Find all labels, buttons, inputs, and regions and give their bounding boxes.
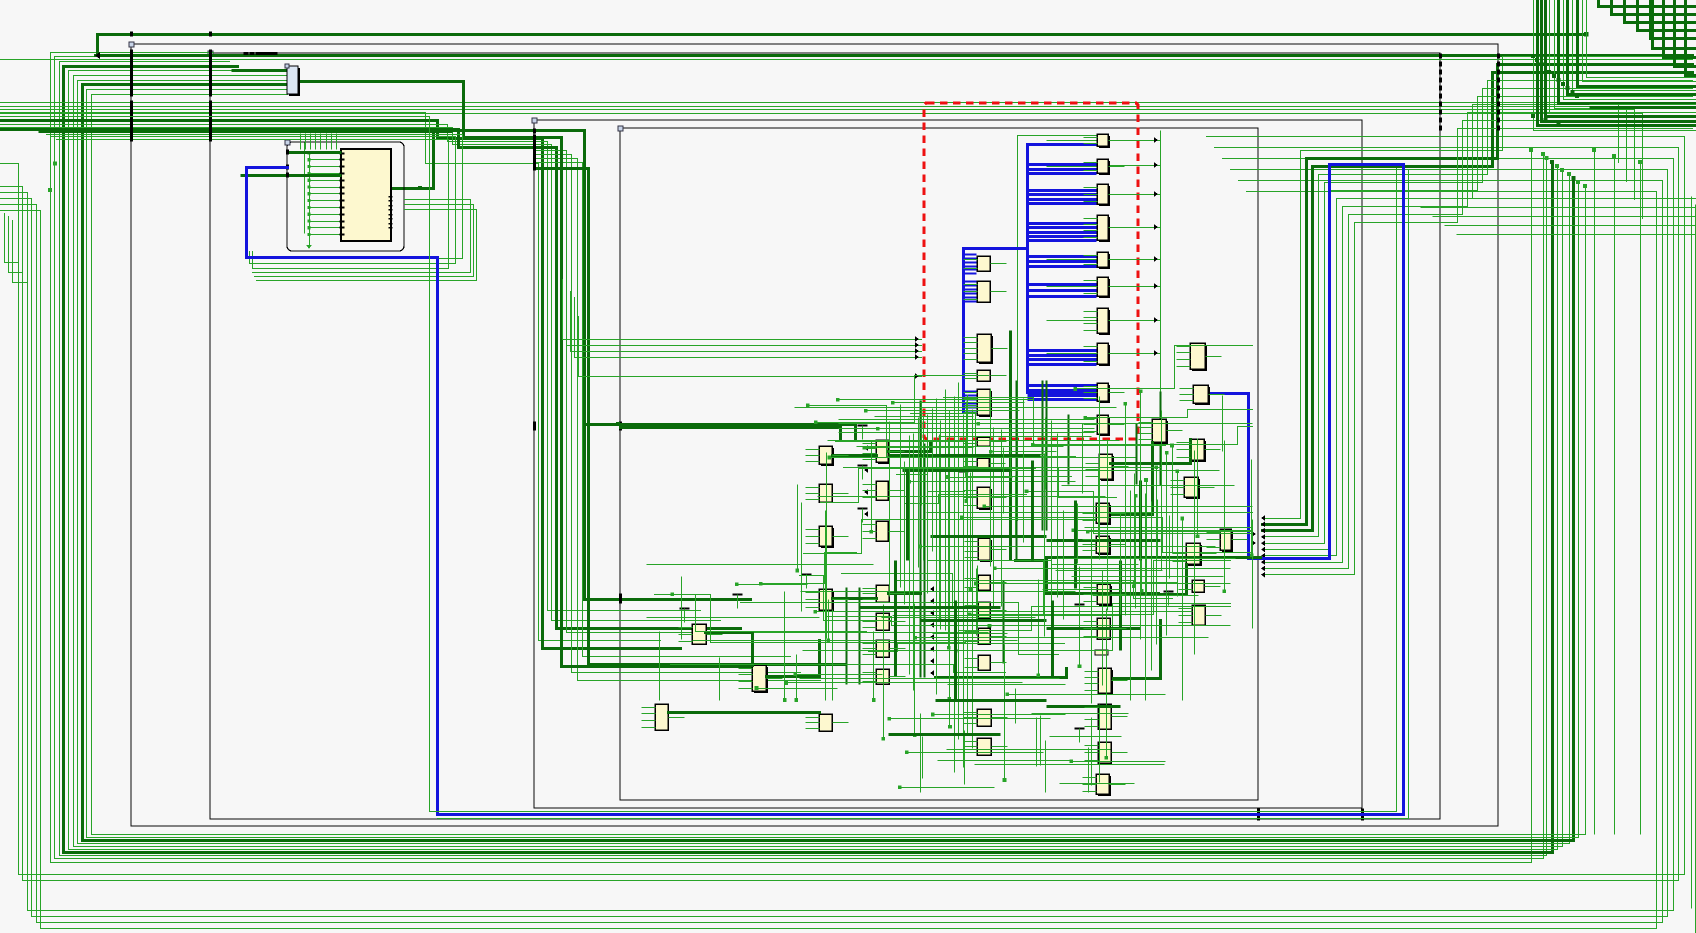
block U42: [1098, 505, 1111, 525]
block U51: [1192, 345, 1207, 371]
block U48: [1098, 742, 1111, 763]
block U56: [1192, 580, 1204, 592]
block U10: [1099, 417, 1110, 436]
block U16: [977, 437, 990, 446]
block U32: [821, 591, 834, 612]
block U18: [979, 489, 992, 510]
arrowheads on rails: [930, 586, 934, 592]
wire dark top y34: [98, 35, 1587, 56]
module container: [287, 142, 404, 251]
wires feeding red box rail: [563, 280, 922, 340]
wire dark y56: [96, 54, 1693, 57]
block U4: [1099, 217, 1110, 242]
block U47: [1098, 704, 1111, 729]
blue left trunk and combs: [962, 249, 965, 413]
module block: [341, 149, 391, 241]
block U28: [819, 484, 832, 502]
block U52: [1195, 387, 1210, 405]
ground terminators: [858, 424, 868, 426]
wire dark from IO box y81: [299, 82, 761, 667]
blue partner green line B: [438, 171, 1409, 819]
block U30: [821, 528, 834, 548]
block U31: [876, 521, 888, 541]
block U50: [1154, 421, 1168, 444]
block U37: [819, 714, 832, 731]
block U20: [978, 575, 990, 590]
block U27: [878, 442, 890, 464]
wire tangle top-right: [1534, 0, 1696, 131]
wire loops around module: [39, 130, 453, 133]
block U39: [692, 624, 706, 644]
block U15: [979, 391, 992, 417]
block U5: [1099, 254, 1110, 269]
dark bus wires cluster: [585, 425, 856, 439]
block U54: [1186, 479, 1200, 499]
block U35: [876, 640, 889, 657]
block U8: [1099, 345, 1110, 366]
wire bundle left-outer loop: [1, 137, 1685, 875]
module pin wires: [310, 153, 342, 155]
block U21: [978, 602, 990, 618]
subsystem boundary box B1: [131, 44, 1498, 826]
blue trunk and combs: [1028, 145, 1097, 393]
block U53: [1192, 441, 1206, 462]
block U34: [876, 613, 889, 630]
red box rails: [1009, 331, 1012, 561]
block U12: [977, 281, 990, 302]
module top pin stubs: [300, 134, 302, 150]
gain block small 1: [1095, 650, 1108, 655]
block U23: [978, 655, 990, 670]
subsystem boundary box B2: [210, 53, 1440, 819]
block U36: [876, 669, 889, 684]
wire bright y59: [1, 59, 1693, 61]
block U46: [1100, 670, 1113, 695]
wire staircase to mid bundle: [1, 113, 661, 641]
edge crossing ticks: [130, 50, 133, 55]
block U6: [1099, 279, 1110, 298]
block U11: [977, 256, 990, 271]
block U40: [655, 704, 668, 730]
wire bundle left-inner loop: [51, 53, 1532, 863]
red highlight dashed box: [924, 103, 1138, 439]
block U38: [754, 667, 768, 693]
subsystem boundary box B4: [620, 128, 1258, 800]
block U58: [1222, 531, 1233, 552]
block U19: [980, 540, 992, 562]
block pin stubs: [1084, 137, 1098, 139]
block U26: [821, 448, 834, 466]
block U13: [979, 336, 993, 364]
block U25: [977, 738, 991, 755]
block U44: [1099, 586, 1112, 606]
block U7: [1099, 310, 1110, 335]
subsystem boundary box B3: [534, 120, 1362, 808]
block U22: [978, 628, 990, 644]
wire bundle right-mid staircase: [1263, 57, 1693, 519]
wire bundle top thin band: [1, 103, 1619, 163]
block U17: [977, 458, 989, 469]
block U24: [977, 709, 991, 726]
IO port box: [289, 68, 300, 96]
wire mesh cluster: [836, 442, 1072, 477]
block U14: [977, 370, 990, 381]
block U9: [1099, 385, 1110, 403]
block U45: [1097, 618, 1110, 639]
block U2: [1099, 161, 1110, 175]
block U43: [1098, 538, 1111, 555]
block U49: [1098, 776, 1111, 796]
block U41: [1101, 456, 1114, 481]
blue partner green line A: [1, 117, 1397, 812]
blue route main: [247, 165, 1404, 815]
wire dark IO input: [232, 69, 288, 72]
block U1: [1099, 136, 1110, 148]
output rail right of red box: [1160, 131, 1162, 393]
block U55: [1188, 545, 1202, 566]
block U3: [1099, 186, 1110, 206]
block U33: [876, 585, 889, 602]
wire module output y188: [392, 131, 751, 600]
block U57: [1192, 605, 1205, 625]
block U29: [876, 481, 888, 500]
